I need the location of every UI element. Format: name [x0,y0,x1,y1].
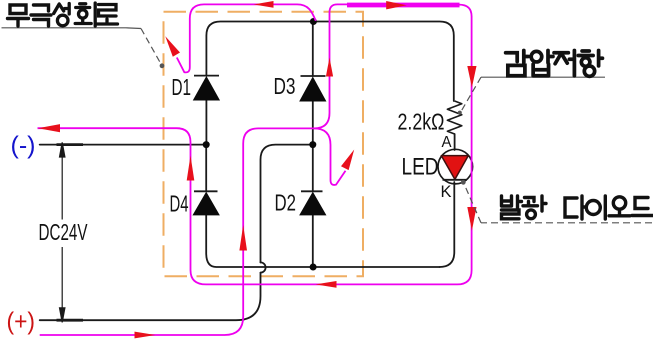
arrows red [38,1,477,338]
arrow right on bottom feed [135,332,156,339]
svg-text:D4: D4 [170,190,189,216]
svg-text:K: K [441,182,453,201]
magenta flow: reverse hint near D1 [177,4,316,72]
wire: top DC+ bus from D1 to right column [206,22,453,102]
arrow up toward node A [187,156,195,181]
magenta flow: reverse hint near D2 [314,128,346,185]
orange dashed box (non-polar circuit boundary) [164,12,364,277]
dimension line DC24V [57,142,84,322]
wire: D4 column node A to bottom [206,145,439,267]
arrow big right on thick bar [386,1,407,9]
wire: bottom-right corner up to LED cathode [440,182,455,267]
diode D1 [194,76,220,100]
svg-text:D1: D1 [172,74,192,100]
junction dot top (D3 cathode / bus) [310,18,317,25]
svg-text:LED: LED [402,154,439,181]
arrow tilted up-right near D2 [341,150,354,171]
arrow down right column lower [467,207,476,231]
diode D4 [193,191,219,215]
arrow left on bottom return [316,281,337,288]
leader for label 감압저항 [461,77,606,112]
svg-text:(+): (+) [7,308,36,336]
diode D3 [300,76,326,101]
magenta flow: feed path (+) up riser, over, and up beside D3 to top [40,4,348,335]
svg-text:A: A [442,134,452,151]
arrow tilted up-left near D1 [165,36,180,56]
svg-text:D3: D3 [274,73,296,99]
junction node B (D3/D2) [309,141,316,148]
arrow left on top line [254,1,274,8]
resistor R 2.2k zigzag [447,101,461,134]
arrow left toward (-) [38,124,60,132]
wire: D1 column below triangle to node A [205,100,207,145]
svg-text:DC24V: DC24V [39,219,88,245]
leader for label 무극성회로 [2,28,163,66]
wire: resistor to LED anode [454,134,456,150]
wire: (+) riser to node B [261,145,313,263]
svg-text:2.2kΩ: 2.2kΩ [398,109,445,135]
label 발광 다이오드 (light emitting diode) [502,196,653,219]
magenta flow: right side down and return [38,5,472,285]
arrow down right column upper [467,66,476,88]
wire: (-) input wire [40,144,207,146]
label 무극성회로 (non-polar circuit) [8,3,118,26]
diode D2 [300,191,326,215]
wire: D3 column [312,22,314,145]
wire hop: (+) riser jumps bottom bus [261,262,266,272]
wire: D2 column [312,145,314,267]
LED U1 symbol [438,149,473,184]
junction node A (D1/D4) [203,141,210,148]
wire: (+) input wire [40,273,261,321]
magenta flow: thick top bar [347,3,460,8]
leader for label 발광 다이오드 [464,183,653,223]
arrow up beside D3 [326,58,333,77]
svg-text:D2: D2 [275,189,297,215]
svg-text:(-): (-) [11,132,36,160]
label 감압저항 (dropping resistor) [506,51,603,77]
arrow up on feed riser [239,225,247,251]
junction dot bottom bus [310,264,317,271]
